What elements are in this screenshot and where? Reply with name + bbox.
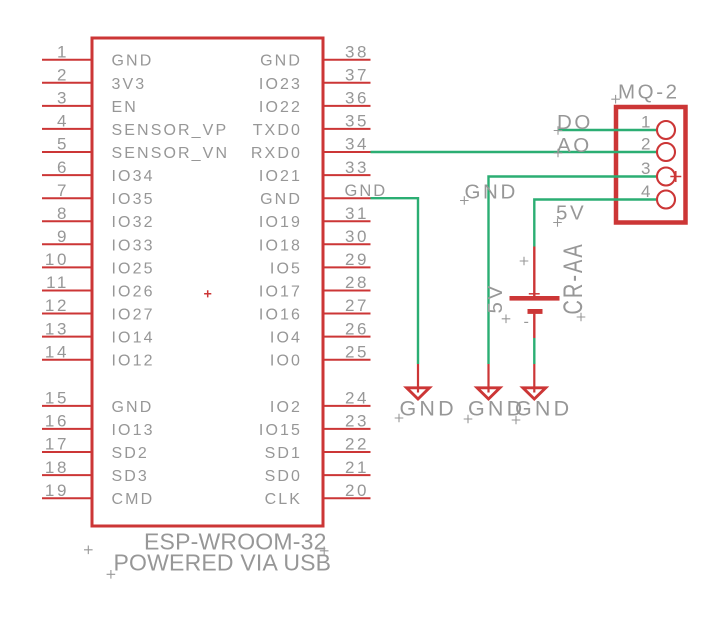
svg-text:MQ-2: MQ-2 (618, 81, 680, 104)
svg-text:4: 4 (57, 112, 69, 131)
svg-text:POWERED VIA USB: POWERED VIA USB (114, 550, 332, 576)
svg-text:IO22: IO22 (259, 99, 302, 116)
svg-text:36: 36 (345, 89, 369, 108)
svg-text:IO18: IO18 (259, 237, 302, 254)
svg-text:CMD: CMD (112, 491, 155, 508)
svg-text:21: 21 (345, 458, 369, 477)
svg-text:IO19: IO19 (259, 214, 302, 231)
svg-text:6: 6 (57, 158, 69, 177)
svg-text:18: 18 (45, 458, 69, 477)
svg-text:IO13: IO13 (112, 422, 155, 439)
svg-text:3: 3 (641, 159, 653, 178)
svg-text:2: 2 (641, 135, 653, 154)
svg-text:20: 20 (345, 481, 369, 500)
svg-text:37: 37 (345, 66, 369, 85)
svg-text:22: 22 (345, 435, 369, 454)
svg-text:5V: 5V (556, 202, 586, 225)
svg-text:33: 33 (345, 158, 369, 177)
svg-text:IO25: IO25 (112, 260, 155, 277)
svg-text:7: 7 (57, 181, 69, 200)
svg-text:IO5: IO5 (270, 260, 302, 277)
svg-text:SD1: SD1 (265, 445, 302, 462)
svg-text:38: 38 (345, 42, 369, 61)
svg-text:24: 24 (345, 389, 369, 408)
svg-text:SD0: SD0 (265, 468, 302, 485)
svg-text:CR-AA: CR-AA (558, 242, 587, 314)
svg-text:IO23: IO23 (259, 76, 302, 93)
svg-text:1: 1 (641, 113, 653, 132)
svg-text:25: 25 (345, 342, 369, 361)
svg-text:IO4: IO4 (270, 330, 302, 347)
svg-text:9: 9 (57, 227, 69, 246)
svg-text:27: 27 (345, 296, 369, 315)
svg-text:IO35: IO35 (112, 191, 155, 208)
svg-text:23: 23 (345, 412, 369, 431)
svg-text:GND: GND (260, 191, 302, 208)
svg-text:IO16: IO16 (259, 307, 302, 324)
svg-text:IO17: IO17 (259, 284, 302, 301)
svg-text:5: 5 (57, 135, 69, 154)
svg-text:4: 4 (641, 182, 653, 201)
svg-text:31: 31 (345, 204, 369, 223)
svg-text:SD2: SD2 (112, 445, 149, 462)
svg-text:RXD0: RXD0 (251, 145, 302, 162)
svg-text:3V3: 3V3 (112, 76, 147, 93)
svg-text:19: 19 (45, 481, 69, 500)
svg-text:16: 16 (45, 412, 69, 431)
svg-text:26: 26 (345, 319, 369, 338)
svg-text:SENSOR_VN: SENSOR_VN (112, 145, 230, 162)
svg-text:GND: GND (260, 53, 302, 70)
svg-text:11: 11 (46, 273, 69, 292)
svg-text:GND: GND (515, 396, 572, 420)
svg-text:14: 14 (45, 342, 69, 361)
svg-text:5V: 5V (484, 283, 507, 313)
svg-text:GND: GND (112, 53, 154, 70)
svg-text:SD3: SD3 (112, 468, 149, 485)
svg-text:17: 17 (45, 435, 69, 454)
svg-text:28: 28 (345, 273, 369, 292)
svg-text:IO26: IO26 (112, 284, 155, 301)
svg-text:IO14: IO14 (112, 330, 155, 347)
svg-text:2: 2 (57, 66, 69, 85)
svg-text:CLK: CLK (265, 491, 302, 508)
svg-text:IO0: IO0 (270, 353, 302, 370)
svg-text:IO34: IO34 (112, 168, 155, 185)
svg-text:GND: GND (112, 399, 154, 416)
svg-text:IO27: IO27 (112, 307, 155, 324)
svg-text:12: 12 (45, 296, 69, 315)
svg-text:15: 15 (45, 389, 69, 408)
svg-text:GND: GND (345, 182, 388, 200)
svg-text:3: 3 (57, 89, 69, 108)
svg-text:IO2: IO2 (270, 399, 302, 416)
svg-text:GND: GND (400, 396, 457, 420)
svg-text:IO12: IO12 (112, 353, 155, 370)
svg-text:IO32: IO32 (112, 214, 155, 231)
svg-text:13: 13 (45, 319, 69, 338)
svg-text:IO15: IO15 (259, 422, 302, 439)
svg-text:TXD0: TXD0 (253, 122, 302, 139)
svg-text:30: 30 (345, 227, 369, 246)
svg-text:EN: EN (112, 99, 138, 116)
svg-text:8: 8 (57, 204, 69, 223)
svg-text:35: 35 (345, 112, 369, 131)
svg-text:DO: DO (557, 111, 593, 134)
svg-text:34: 34 (345, 135, 369, 154)
svg-text:29: 29 (345, 250, 369, 269)
svg-text:GND: GND (465, 180, 518, 203)
svg-text:SENSOR_VP: SENSOR_VP (112, 122, 229, 139)
svg-text:IO21: IO21 (259, 168, 302, 185)
svg-text:IO33: IO33 (112, 237, 155, 254)
svg-text:10: 10 (45, 250, 69, 269)
svg-text:1: 1 (57, 42, 69, 61)
